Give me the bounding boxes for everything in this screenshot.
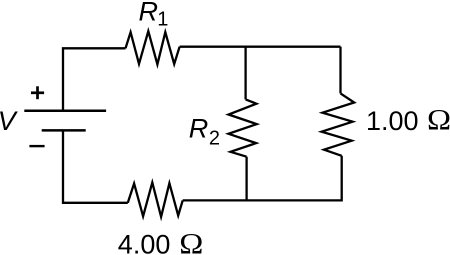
svg-text:4.00: 4.00 <box>118 229 171 255</box>
svg-text:1.00: 1.00 <box>366 106 419 136</box>
svg-text:R: R <box>139 0 159 27</box>
svg-text:2: 2 <box>209 128 220 150</box>
svg-text:V: V <box>0 106 19 136</box>
svg-text:Ω: Ω <box>427 103 450 137</box>
svg-text:R: R <box>189 113 209 143</box>
svg-text:1: 1 <box>157 9 168 31</box>
svg-text:Ω: Ω <box>179 226 203 255</box>
